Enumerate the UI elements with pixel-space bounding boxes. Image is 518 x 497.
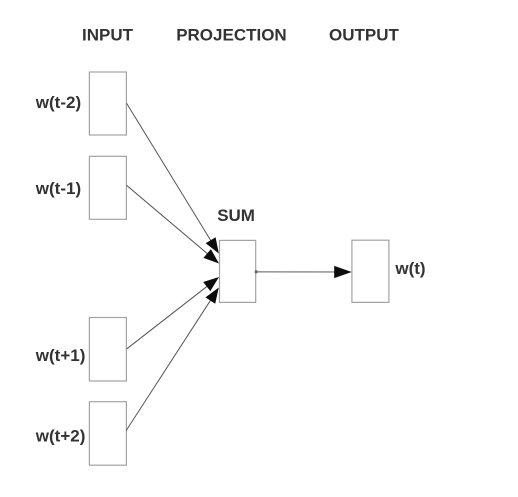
arrowhead into SUM from w(t-2) [206,237,219,253]
wire from w(t-2) to SUM [127,103,212,242]
wire from w(t+1) to SUM [127,285,209,349]
junction dot at SUM output [255,270,258,273]
svg-text:SUM: SUM [217,206,255,225]
output box w(t) [352,240,389,302]
svg-text:w(t+2): w(t+2) [35,427,86,446]
arrowhead into SUM from w(t+2) [206,288,219,304]
svg-text:w(t): w(t) [394,259,425,278]
input box w(t+2) [89,402,126,466]
arrowhead into SUM from w(t+1) [203,277,219,291]
svg-text:w(t-1): w(t-1) [35,179,81,198]
input box w(t+1) [89,318,126,382]
arrowhead into w(t) [334,266,352,278]
svg-text:INPUT: INPUT [82,26,134,45]
projection box SUM [220,240,256,302]
svg-text:w(t-2): w(t-2) [35,93,81,112]
input box w(t-1) [89,156,126,219]
input box w(t-2) [89,72,126,135]
arrowhead into SUM from w(t-1) [203,249,219,263]
svg-text:OUTPUT: OUTPUT [329,26,400,45]
wire from w(t+2) to SUM [126,299,211,431]
wire from SUM to w(t) [256,271,337,273]
svg-text:PROJECTION: PROJECTION [176,26,287,45]
svg-text:w(t+1): w(t+1) [35,346,86,365]
wire from w(t-1) to SUM [126,185,208,255]
